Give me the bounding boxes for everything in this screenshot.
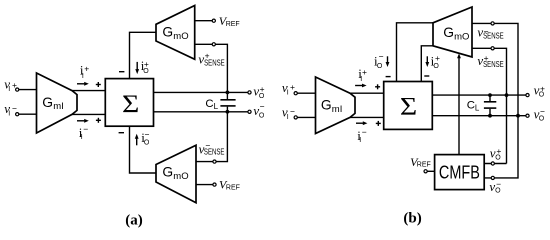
current arrow iI- (b)	[356, 121, 367, 125]
current arrow iI+ (a)	[77, 82, 89, 86]
svg-text:I: I	[359, 137, 361, 144]
wire summer top-right to GmO out+ (b)	[421, 46, 433, 82]
node vSENSE- pickoff (a)	[213, 160, 216, 163]
node VREF top (a) terminal	[212, 19, 215, 22]
junction dot rail vO+ / capacitor (b)	[488, 93, 492, 97]
svg-text:−: −	[145, 130, 150, 140]
svg-text:I: I	[287, 90, 289, 97]
transconductor GmO top (a)	[156, 6, 195, 60]
plus sign at summer input bottom (a)	[96, 118, 101, 123]
svg-text:−: −	[379, 51, 384, 61]
wire vSENSE- (a)	[196, 112, 227, 162]
wire output rail vO- (a)	[154, 111, 248, 113]
label vO+ at CMFB (b)	[490, 145, 502, 161]
svg-text:+: +	[496, 146, 501, 156]
svg-text:(b): (b)	[403, 210, 421, 226]
node vSENSE+ pickoff (a)	[212, 43, 215, 46]
svg-text:+: +	[12, 80, 17, 90]
capacitor CL (a)	[220, 92, 235, 111]
label CL (b)	[467, 100, 480, 113]
label VREF bottom (a)	[219, 178, 240, 192]
wire VREF to CMFB (b)	[427, 170, 434, 172]
label iI+ (b)	[358, 66, 367, 83]
wire output rail vO+ (a)	[154, 91, 248, 93]
svg-text:I: I	[81, 134, 83, 141]
label vSENSE+ (a)	[198, 51, 225, 68]
svg-text:mI: mI	[53, 101, 64, 112]
svg-text:G: G	[443, 25, 454, 40]
label vI+ (a)	[4, 76, 17, 93]
svg-text:−: −	[496, 179, 501, 189]
node vO+ (a) output terminal	[248, 91, 251, 94]
svg-text:REF: REF	[226, 21, 240, 28]
junction dot rail vO- / outer vertical (b)	[516, 114, 520, 118]
svg-text:REF: REF	[417, 162, 431, 169]
label vO- (a)	[253, 102, 265, 120]
svg-text:L: L	[214, 102, 219, 111]
wire vI- to GmI (a)	[19, 113, 37, 115]
wire vSENSE+ from GmO to inner rail (b)	[472, 48, 507, 163]
node vO- (a) output terminal	[248, 110, 251, 113]
svg-text:mO: mO	[173, 31, 188, 42]
label vI- (a)	[4, 101, 17, 118]
label vSENSE+ (b)	[477, 53, 504, 69]
wire vSENSE+ (a)	[195, 44, 228, 92]
summer U1 (b)	[384, 82, 433, 130]
current arrow iI+ (b)	[355, 84, 367, 88]
junction dot rail vO- / sense (a)	[226, 110, 230, 114]
wire GmI out+ to summer (a)	[72, 90, 105, 92]
label vSENSE- (a)	[199, 141, 225, 157]
node vI- (a) input terminal	[16, 113, 19, 116]
wire output rail vO- (b)	[432, 115, 526, 117]
caption (a)	[125, 213, 143, 229]
wire summer top to GmO top (a)	[130, 32, 157, 78]
node VREF (b) terminal	[424, 170, 427, 173]
label vSENSE- (b)	[477, 25, 504, 41]
node VREF bottom (a) terminal	[213, 183, 216, 186]
svg-text:REF: REF	[226, 185, 240, 192]
plus sign at summer input top (a)	[96, 82, 101, 87]
wire summer top-left to GmO out- (b)	[397, 23, 434, 82]
svg-text:C: C	[467, 100, 475, 112]
label vO- (b)	[534, 106, 545, 122]
svg-text:mO: mO	[173, 171, 188, 182]
wire GmO bottom to VREF (a)	[196, 184, 213, 186]
svg-text:+: +	[84, 64, 89, 74]
wire CMFB vO- stub (b)	[484, 116, 518, 178]
transconductor GmO bottom (a)	[156, 145, 196, 203]
wire vSENSE- from GmO to outer rail (b)	[472, 23, 518, 115]
svg-text:G: G	[321, 98, 332, 113]
transconductor GmI (a)	[37, 73, 78, 133]
label vI+ (b)	[282, 80, 295, 97]
svg-text:+: +	[144, 59, 149, 69]
svg-text:Σ: Σ	[122, 90, 139, 117]
label vO+ (a)	[253, 83, 265, 100]
label iO+ (a)	[141, 58, 150, 75]
svg-text:O: O	[259, 93, 265, 100]
wire GmI out- to summer (b)	[350, 116, 384, 118]
label vI- (b)	[282, 104, 295, 121]
minus sign at summer top (a)	[119, 71, 124, 73]
current arrow iO+ (a)	[135, 62, 139, 74]
svg-text:mI: mI	[332, 104, 343, 115]
svg-text:+: +	[540, 84, 545, 94]
node CMFB vO- pickoff (b)	[491, 176, 494, 179]
wire GmO top to VREF (a)	[195, 20, 212, 22]
svg-text:G: G	[162, 165, 173, 180]
svg-text:−: −	[290, 107, 295, 117]
svg-text:+: +	[362, 67, 367, 77]
wire output rail vO+ (b)	[432, 94, 526, 96]
node CMFB vO+ pickoff (b)	[491, 162, 494, 165]
label VREF (b)	[410, 155, 431, 169]
svg-text:−: −	[260, 102, 265, 112]
node vI- (b) input terminal	[294, 116, 297, 119]
wire CMFB control to GmO (b)	[457, 53, 461, 154]
junction dot rail vO+ / inner vertical (b)	[505, 93, 509, 97]
svg-text:G: G	[42, 95, 53, 110]
capacitor CL (b)	[484, 95, 496, 116]
label vO- at CMFB (b)	[489, 179, 501, 195]
svg-text:−: −	[12, 104, 17, 114]
label iI+ (a)	[80, 63, 89, 80]
svg-text:I: I	[82, 73, 84, 80]
svg-text:SENSE: SENSE	[483, 59, 504, 69]
wire vI- to GmI (b)	[297, 116, 315, 118]
summer U1 (a)	[105, 79, 153, 127]
wire summer bottom to GmO bottom (a)	[130, 126, 157, 173]
svg-text:(a): (a)	[125, 213, 143, 229]
label vO+ (b)	[534, 82, 545, 98]
svg-text:SENSE: SENSE	[483, 31, 504, 41]
CMFB block (b)	[435, 155, 485, 190]
junction dot rail vO- / capacitor (b)	[488, 114, 492, 118]
node vSENSE+ pickoff (b)	[491, 47, 494, 50]
svg-text:O: O	[433, 63, 439, 70]
label iI- (a)	[79, 124, 89, 141]
minus sign at summer top-right (b)	[424, 75, 429, 77]
label CL (a)	[205, 98, 218, 111]
current arrow iO- (b)	[386, 56, 390, 67]
label iO- (a)	[141, 130, 150, 147]
node vI+ (a) input terminal	[16, 88, 19, 91]
node vI+ (b) input terminal	[294, 92, 297, 95]
svg-text:L: L	[475, 104, 480, 113]
svg-text:−: −	[540, 107, 545, 117]
transconductor GmI (b)	[316, 77, 356, 134]
label iO+ (b)	[431, 53, 440, 70]
transconductor GmO (b)	[433, 7, 472, 57]
current arrow iO- (a)	[135, 134, 139, 146]
wire GmI out+ to summer (b)	[350, 92, 384, 94]
svg-text:−: −	[83, 124, 88, 134]
svg-text:SENSE: SENSE	[204, 58, 225, 68]
node vO+ (b) output terminal	[526, 94, 529, 97]
svg-text:O: O	[144, 139, 150, 146]
svg-text:Σ: Σ	[400, 92, 417, 119]
svg-text:I: I	[360, 76, 362, 83]
label VREF top (a)	[219, 14, 240, 28]
plus sign at summer input top (b)	[375, 84, 380, 89]
svg-text:O: O	[377, 63, 383, 70]
minus sign at summer bottom (a)	[119, 132, 124, 134]
label iI- (b)	[357, 127, 367, 144]
svg-text:G: G	[162, 25, 173, 40]
caption (b)	[403, 210, 421, 226]
label iO- (b)	[374, 51, 384, 69]
node vO- (b) output terminal	[526, 114, 529, 117]
current arrow iI- (a)	[77, 119, 89, 123]
wire vI+ to GmI (a)	[19, 89, 37, 91]
svg-text:mO: mO	[454, 31, 469, 42]
node vSENSE- pickoff (b)	[491, 22, 494, 25]
svg-text:SENSE: SENSE	[204, 147, 225, 157]
svg-text:I: I	[287, 114, 289, 121]
svg-text:−: −	[362, 127, 367, 137]
svg-text:I: I	[8, 111, 10, 118]
svg-text:C: C	[205, 98, 213, 110]
svg-text:+: +	[260, 84, 265, 94]
svg-text:CMFB: CMFB	[439, 163, 480, 183]
current arrow iO+ (b)	[425, 56, 429, 67]
plus sign at summer input bottom (b)	[376, 121, 381, 126]
wire GmI out- to summer (a)	[72, 113, 105, 115]
wire vI+ to GmI (b)	[297, 92, 315, 94]
svg-text:+: +	[435, 53, 440, 63]
svg-text:I: I	[8, 86, 10, 93]
wire CMFB vO+ stub (b)	[484, 163, 506, 165]
minus sign at summer top-left (b)	[386, 76, 391, 78]
svg-text:O: O	[259, 113, 265, 120]
svg-text:+: +	[290, 82, 295, 92]
junction dot rail vO+ / sense (a)	[226, 91, 230, 95]
